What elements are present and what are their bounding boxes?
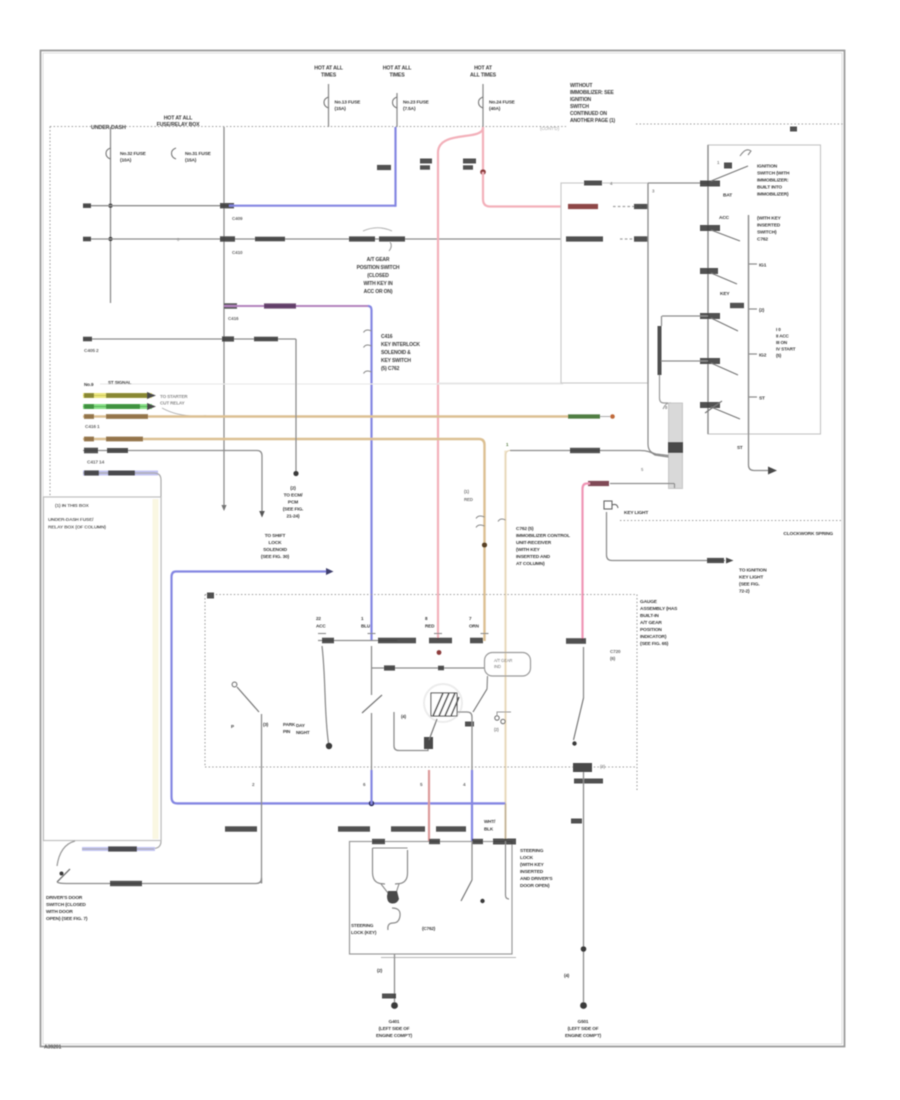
svg-text:C409: C409 — [232, 216, 243, 221]
alternate path curve from YEL note — [162, 408, 206, 416]
cream wire inside box with foot — [506, 841, 510, 899]
wire solenoid output right and down (exits box) — [457, 712, 472, 770]
svg-text:C720: C720 — [610, 649, 621, 654]
svg-text:(10A): (10A) — [120, 158, 132, 164]
svg-text:(WITH KEY: (WITH KEY — [516, 547, 541, 553]
svg-text:SWITCH (WITH: SWITCH (WITH — [757, 171, 790, 177]
wire IG2 feed line — [662, 315, 708, 317]
svg-text:No.31 FUSE: No.31 FUSE — [185, 151, 212, 157]
svg-text:(6): (6) — [610, 656, 616, 661]
ground splice dot G501 — [580, 1002, 587, 1009]
junction dot on BLU bus at gauge wire — [369, 801, 375, 807]
svg-text:ST: ST — [737, 445, 743, 450]
gauge assembly dashed box bottom edge — [205, 766, 637, 768]
svg-text:(5) C762: (5) C762 — [381, 366, 400, 372]
svg-text:OPEN) (SEE FIG. 7): OPEN) (SEE FIG. 7) — [46, 916, 88, 922]
splice dot under RED pin — [437, 650, 442, 655]
svg-text:FUSE/RELAY BOX: FUSE/RELAY BOX — [157, 122, 201, 128]
svg-text:RED: RED — [425, 624, 435, 629]
arrow terminal on key light wire — [726, 558, 734, 564]
label RED on branch A — [420, 159, 432, 164]
label under interlock contact — [574, 779, 603, 784]
svg-text:ACC: ACC — [316, 624, 326, 629]
svg-text:C416: C416 — [228, 316, 239, 321]
svg-text:1: 1 — [506, 442, 509, 447]
pin bus segment — [318, 640, 397, 642]
wire RED branch B down (pink) — [483, 172, 561, 207]
label BLU/RED at bottom — [391, 826, 425, 831]
junction on vertical at BLK/YEL wire — [108, 237, 112, 241]
wire below PNK pin (gray) — [583, 647, 585, 698]
svg-text:ORN: ORN — [469, 624, 480, 629]
svg-text:TO ECM/: TO ECM/ — [284, 493, 304, 499]
wiper arm from ACC2 — [711, 363, 738, 375]
fuse F3 symbol — [479, 97, 484, 108]
svg-text:No.23 FUSE: No.23 FUSE — [403, 100, 430, 106]
key head (dark) — [387, 891, 399, 904]
svg-text:WITH KEY IN: WITH KEY IN — [363, 281, 393, 287]
coil output leg — [486, 676, 489, 689]
svg-text:AT COLUMN): AT COLUMN) — [516, 561, 545, 567]
wire RED feed from fuse box (pink) — [482, 127, 484, 172]
svg-text:WITH DOOR: WITH DOOR — [46, 909, 73, 915]
svg-text:(CONT'D): (CONT'D) — [540, 126, 560, 131]
wire GRN/WHT colored segment at right end of ORN row — [568, 414, 600, 418]
svg-text:(7.5A): (7.5A) — [403, 106, 416, 112]
svg-text:C762 (5): C762 (5) — [516, 526, 534, 532]
wire BLK to ground G501 (long) — [583, 772, 585, 1002]
junction at bus on BLK row — [222, 336, 234, 341]
svg-text:III ON: III ON — [776, 340, 788, 345]
shift solenoid coil (hatched) — [424, 684, 462, 722]
svg-text:SOLENOID: SOLENOID — [263, 547, 288, 553]
svg-text:CLOCKWORK SPRING: CLOCKWORK SPRING — [783, 531, 833, 537]
svg-text:ENGINE COMP'T): ENGINE COMP'T) — [565, 1033, 602, 1038]
wire BLU/RED drop (light red) — [428, 770, 430, 841]
arrow terminal on GRN row — [147, 403, 156, 410]
svg-text:TO SHIFT: TO SHIFT — [265, 533, 286, 539]
svg-text:IG2: IG2 — [759, 353, 767, 359]
svg-text:(WITH KEY: (WITH KEY — [520, 862, 545, 868]
wire BLU/WHT loop horizontal with terminal — [176, 570, 326, 572]
label RED inside relay box — [568, 204, 598, 209]
wire from HOT feed 3 — [482, 84, 484, 127]
pin label blob 4 (ORN) — [470, 638, 483, 644]
svg-text:IND: IND — [494, 664, 501, 669]
illumination contact dot — [326, 743, 332, 749]
feed from bar to connector band — [660, 375, 669, 403]
A/T position switch arm (left, inside box) — [232, 682, 237, 687]
svg-text:C416 1: C416 1 — [85, 424, 100, 430]
stub from IG2 feed to terminal bar — [661, 316, 663, 326]
wire GRN row (green highlight) — [83, 404, 152, 409]
svg-text:STEERING: STEERING — [351, 923, 374, 928]
label on coil bus — [384, 665, 395, 670]
svg-text:LOCK: LOCK — [520, 855, 534, 861]
labels on ORN row 2 — [84, 437, 94, 442]
entry blobs on box top edge — [372, 839, 385, 844]
svg-text:C410: C410 — [232, 250, 243, 255]
wire BLU/WHT drop (blue) — [370, 770, 372, 805]
svg-text:C416: C416 — [381, 334, 393, 340]
svg-text:HOT AT ALL: HOT AT ALL — [314, 66, 344, 72]
junction blob where cream wire meets blue bus — [505, 803, 507, 841]
svg-text:AND DRIVER'S: AND DRIVER'S — [520, 876, 553, 882]
label PNK — [588, 481, 609, 486]
solenoid contact blob — [424, 737, 433, 749]
svg-text:6: 6 — [363, 782, 366, 787]
label RED on branch B — [463, 159, 476, 164]
relay box edge label — [584, 181, 602, 186]
svg-text:2: 2 — [252, 782, 255, 787]
dotted reference line (top right) — [636, 123, 843, 125]
svg-text:IGNITION: IGNITION — [757, 164, 778, 170]
relay box (light outline) — [561, 183, 648, 383]
svg-text:BLU: BLU — [361, 624, 371, 629]
svg-text:(C762): (C762) — [422, 926, 436, 931]
svg-text:(SEE FIG.: (SEE FIG. — [739, 582, 760, 588]
in-line connector arc — [363, 228, 392, 231]
label on YEL row — [84, 393, 94, 398]
label BLU/YEL at bottom — [436, 826, 466, 831]
svg-text:I 0: I 0 — [776, 327, 781, 332]
svg-text:DAY: DAY — [296, 723, 305, 728]
pale wire stripe inside left box edge — [153, 499, 159, 839]
label PUR — [264, 303, 296, 308]
svg-text:No.32 FUSE: No.32 FUSE — [120, 151, 147, 157]
svg-text:UNDER-DASH FUSE/: UNDER-DASH FUSE/ — [48, 517, 94, 523]
svg-text:GAUGE: GAUGE — [640, 599, 658, 605]
label on door switch wire — [110, 881, 142, 886]
svg-text:SWITCH (CLOSED: SWITCH (CLOSED — [46, 902, 86, 908]
svg-text:DOOR OPEN): DOOR OPEN) — [520, 883, 550, 889]
svg-text:II ACC: II ACC — [776, 334, 790, 339]
wire from relay box to ignition switch BAT — [648, 182, 708, 184]
label near solenoid bottom — [465, 722, 474, 727]
gear switch arm — [362, 695, 382, 713]
svg-text:(1): (1) — [464, 489, 470, 494]
ignition switch rotor arc (top) — [740, 150, 751, 156]
key neck lines — [381, 884, 399, 893]
wire from BLU pin down to switch — [371, 646, 373, 695]
wire YEL row (yellow highlight) — [83, 393, 152, 398]
svg-text:KEY LIGHT: KEY LIGHT — [739, 575, 763, 581]
small blob on coil bus at RED drop — [438, 666, 444, 671]
svg-text:SWITCH: SWITCH — [570, 104, 589, 110]
svg-text:(WITH KEY: (WITH KEY — [757, 216, 782, 222]
svg-text:(15A): (15A) — [185, 158, 197, 164]
dotted mechanical link line — [620, 520, 843, 522]
contact blob lower — [730, 303, 744, 308]
label BLU/WHT at bottom — [338, 826, 370, 831]
svg-text:CONTINUED ON: CONTINUED ON — [570, 111, 607, 117]
wire ST output to starter (arrow) — [749, 434, 769, 471]
svg-text:HOT AT ALL: HOT AT ALL — [164, 116, 194, 122]
wire color label on BLK row — [254, 337, 278, 342]
interlock switch contact dot — [572, 741, 576, 745]
svg-text:(2): (2) — [290, 486, 296, 492]
wire BLK/WHT row (gray) turning down — [83, 451, 262, 512]
svg-text:ASSEMBLY (HAS: ASSEMBLY (HAS — [640, 606, 678, 612]
pin label blob 1 — [322, 638, 334, 644]
svg-text:(2): (2) — [494, 727, 499, 732]
svg-text:TIMES: TIMES — [389, 73, 405, 79]
svg-text:C762: C762 — [757, 237, 768, 243]
steering lock assembly box — [350, 842, 513, 955]
svg-text:IMMOBILIZER: SEE: IMMOBILIZER: SEE — [570, 90, 615, 96]
junction blob at bus on BLK/YEL — [220, 236, 235, 241]
svg-text:ANOTHER PAGE (1): ANOTHER PAGE (1) — [570, 118, 615, 124]
svg-text:(4): (4) — [401, 714, 407, 719]
wire BLK/WHT from cream corner to band — [510, 451, 669, 458]
bus wire (vertical) in fuse box — [223, 127, 225, 505]
svg-text:ST: ST — [759, 396, 765, 402]
small contact circles — [495, 716, 499, 720]
wire PNK from band bottom — [610, 483, 675, 485]
svg-text:(SEE FIG.: (SEE FIG. — [283, 507, 304, 513]
svg-text:G501: G501 — [578, 1019, 589, 1024]
wiper arm from ACC — [711, 230, 740, 241]
svg-text:HOT AT: HOT AT — [474, 66, 493, 72]
svg-text:SOLENOID &: SOLENOID & — [381, 350, 411, 356]
svg-text:C405 2: C405 2 — [84, 348, 99, 354]
junction blob at bus on PUR wire — [224, 303, 237, 308]
contact BAT junction — [700, 181, 720, 187]
contact junction ST — [700, 402, 720, 408]
svg-text:INSERTED AND: INSERTED AND — [516, 554, 551, 560]
connector pigtail mark — [389, 242, 391, 251]
arrow end of bus wire — [221, 505, 226, 511]
svg-text:TO STARTER: TO STARTER — [160, 394, 188, 399]
wire color label WHT/BLK — [255, 237, 285, 242]
svg-text:INSERTED: INSERTED — [520, 869, 544, 875]
arrow terminal on YEL row — [147, 392, 156, 399]
fuse F4 symbol (interior) — [106, 148, 111, 159]
key cylinder cup — [373, 848, 408, 884]
label BLK/YEL inside relay box — [566, 236, 603, 241]
svg-text:TIMES: TIMES — [321, 73, 337, 79]
svg-text:3: 3 — [652, 189, 655, 194]
wire from gear switch down (exits box) — [371, 713, 373, 770]
svg-text:ST SIGNAL: ST SIGNAL — [108, 380, 131, 385]
labels on BLU row — [84, 470, 99, 475]
label on key light wire — [707, 558, 724, 563]
junction dot on G501 wire — [581, 946, 587, 952]
svg-text:No.9: No.9 — [84, 382, 94, 387]
wiper arm from ST crossing — [705, 401, 722, 413]
page border frame (inner light line) — [43, 53, 842, 1044]
wire BLU/WHT stub under fuse box (light blue) — [82, 847, 155, 851]
svg-text:A/T GEAR: A/T GEAR — [367, 257, 390, 263]
splice dot on BLK drop — [293, 471, 298, 476]
stub and splice dot at end of ORN row 1 — [600, 416, 610, 418]
contact ACC junction — [700, 225, 720, 231]
wire ORN row 1 (tan, long) — [83, 415, 568, 417]
wire from fuse box into door switch (curve) — [57, 841, 75, 866]
wire BLU/WHT loop left side (blue) — [172, 572, 178, 804]
pin label blob 2 (BLU) — [378, 638, 416, 644]
svg-text:WITHOUT: WITHOUT — [570, 83, 592, 89]
key ring curl — [388, 908, 400, 930]
wiper arm from IG feed — [711, 318, 738, 331]
wire BLK drop to splice (from EFI row) — [295, 339, 297, 471]
svg-text:ALL TIMES: ALL TIMES — [470, 73, 497, 79]
svg-text:SWITCH): SWITCH) — [757, 230, 777, 236]
svg-text:RED: RED — [464, 497, 473, 502]
svg-text:PCM: PCM — [288, 500, 298, 506]
label GRN/RED — [225, 826, 257, 831]
svg-text:8: 8 — [665, 405, 668, 410]
svg-text:(SEE FIG. 30): (SEE FIG. 30) — [261, 554, 290, 560]
connector blob on band — [668, 442, 683, 453]
wire BLU vertical to key interlock (blue, from purple corner) — [368, 306, 372, 641]
svg-text:No.13 FUSE: No.13 FUSE — [335, 100, 362, 106]
svg-text:(15A): (15A) — [335, 106, 347, 112]
interlock switch arm (diagonal) — [574, 698, 584, 740]
label on GRN row — [84, 404, 94, 409]
pin label on G501 wire — [571, 819, 582, 824]
svg-text:ACC OR ON): ACC OR ON) — [364, 289, 393, 295]
junction blob at bus — [220, 203, 234, 208]
contact square above BAT arm — [724, 163, 732, 169]
faint alignment line — [100, 383, 563, 385]
svg-text:INDICATOR): INDICATOR) — [640, 634, 667, 640]
wire PNK colored segment turning down (pink) — [583, 484, 591, 642]
svg-text:22: 22 — [316, 616, 321, 621]
driver door switch arm — [57, 869, 70, 882]
svg-text:8: 8 — [425, 616, 428, 621]
terminal blob at relay box edge on RED — [634, 204, 648, 209]
svg-text:A/T GEAR: A/T GEAR — [640, 620, 662, 626]
wire from pin 22 down to illumination contact — [322, 646, 329, 743]
gauge assembly dashed box right edge — [636, 595, 638, 768]
aftermarket accessory box (left tall) — [44, 497, 162, 841]
svg-text:RELAY BOX (OF COLUMN): RELAY BOX (OF COLUMN) — [48, 525, 106, 531]
labels on ORN row 1 — [84, 414, 94, 419]
pin hooks on ORN column (key switch) — [476, 516, 485, 518]
svg-text:1: 1 — [361, 616, 364, 621]
svg-text:POSITION SWITCH: POSITION SWITCH — [357, 265, 400, 271]
gauge assembly dashed box left edge — [204, 595, 206, 768]
svg-text:UNIT-RECEIVER: UNIT-RECEIVER — [516, 540, 552, 546]
svg-text:ENGINE COMP'T): ENGINE COMP'T) — [376, 1033, 413, 1038]
wire from HOT feed 1 — [328, 84, 330, 127]
svg-text:(40A): (40A) — [489, 106, 501, 112]
corner junction blob on dashed box — [207, 593, 214, 599]
arrow to shift lock (down) — [259, 511, 265, 518]
svg-text:4: 4 — [463, 782, 466, 787]
hook mark at band top — [663, 403, 671, 409]
wire row BLK to EFI (gray) — [83, 338, 296, 340]
ignition switch wiper column (right) — [748, 215, 750, 434]
key-in reminder contact symbol — [604, 501, 612, 509]
inner bottom line of lock box — [381, 957, 516, 959]
tiny wire to contacts — [497, 712, 511, 716]
svg-text:C417 14: C417 14 — [87, 460, 105, 466]
dashed wire RED inside relay box — [613, 206, 648, 208]
wire from door switch to gauge (long horizontal) — [57, 878, 262, 884]
wire label BLK/YEL at connector — [349, 236, 375, 241]
interlock switch (right side of box) — [471, 841, 473, 880]
svg-text:KEY: KEY — [720, 291, 730, 297]
svg-text:IGNITION: IGNITION — [570, 97, 592, 103]
cream wire vertical from BLK/WHT corner down to steering lock — [504, 451, 506, 842]
svg-text:UNDER-DASH: UNDER-DASH — [91, 125, 126, 131]
contact junction ACC2 — [700, 358, 720, 364]
svg-text:HOT AT ALL: HOT AT ALL — [383, 66, 413, 72]
connector pin marks on BLU vertical — [364, 330, 372, 332]
connector band (wide gray) — [669, 403, 683, 489]
svg-text:PARK: PARK — [283, 722, 296, 727]
svg-text:LOCK: LOCK — [269, 540, 283, 546]
svg-text:72-2): 72-2) — [739, 589, 750, 595]
fuse F5 symbol (interior) — [172, 148, 177, 159]
svg-text:(4): (4) — [564, 973, 570, 978]
svg-text:(1) IN THIS BOX: (1) IN THIS BOX — [55, 503, 90, 509]
label BLK/WHT — [570, 448, 600, 453]
label BLU/WHT on stub — [108, 846, 137, 851]
wire BLK/YEL horizontal (long) — [83, 238, 561, 240]
contact tick IG2 on wiper column — [749, 353, 758, 355]
svg-text:DRIVER'S DOOR: DRIVER'S DOOR — [46, 895, 83, 901]
wiper arm from BAT — [711, 166, 748, 181]
wire ORN row 2 (tan), turns down to column — [83, 439, 485, 641]
wire from fuse box top to bus — [110, 127, 112, 303]
svg-text:No.24 FUSE: No.24 FUSE — [489, 100, 516, 106]
svg-text:LOCK (KEY): LOCK (KEY) — [351, 930, 377, 935]
terminal bar (thick) — [658, 326, 662, 375]
under-dash fuse/relay box dashed top edge — [50, 126, 566, 128]
wire RED branch to column (pink curve) — [438, 128, 483, 640]
label blob at PNK pin — [566, 638, 586, 644]
svg-text:BLK: BLK — [484, 827, 494, 832]
svg-text:PIN: PIN — [283, 729, 291, 734]
svg-text:KEY SWITCH: KEY SWITCH — [381, 358, 411, 364]
ignition switch box outline — [708, 145, 821, 434]
wire BLK to ground G401 — [394, 954, 396, 1002]
svg-text:INSERTED: INSERTED — [757, 223, 781, 229]
faint box bottom edge — [438, 382, 563, 384]
svg-text:(3): (3) — [263, 722, 269, 727]
svg-text:IMMOBILIZER): IMMOBILIZER) — [757, 192, 789, 198]
wire BLU bus horizontal (blue) — [177, 802, 506, 804]
svg-text:(2): (2) — [759, 308, 765, 313]
wire solenoid to contact (diagonal) — [429, 719, 437, 740]
coil output switch arm — [473, 689, 487, 712]
dashed wire BLK/YEL inside relay box — [620, 238, 636, 240]
reference tick mark under dotted line — [790, 127, 797, 132]
svg-text:5: 5 — [420, 782, 423, 787]
svg-text:IMMOBILIZER CONTROL: IMMOBILIZER CONTROL — [516, 533, 570, 539]
svg-text:IG1: IG1 — [759, 263, 767, 269]
pin label blob 3 (RED) — [429, 638, 452, 644]
label BLU on riser — [377, 165, 391, 170]
svg-text:NIGHT: NIGHT — [296, 730, 310, 735]
gauge assembly dashed box top edge — [205, 594, 637, 596]
svg-text:IMMOBILIZER:: IMMOBILIZER: — [757, 178, 789, 184]
wire WHT/BLU horizontal upper — [83, 205, 229, 207]
svg-text:P: P — [231, 724, 234, 729]
splice S201 on RED wire — [480, 169, 486, 175]
wire from key-in contact down and right — [607, 512, 726, 561]
svg-text:CUT RELAY: CUT RELAY — [160, 401, 185, 406]
wire BLU/YEL drop (blue) — [471, 770, 473, 841]
svg-text:BUILT INTO: BUILT INTO — [757, 185, 782, 191]
svg-text:1: 1 — [717, 160, 720, 165]
svg-text:(LEFT SIDE OF: (LEFT SIDE OF — [568, 1026, 599, 1031]
ground splice dot G401 — [391, 1002, 398, 1009]
svg-text:(3): (3) — [600, 764, 606, 769]
